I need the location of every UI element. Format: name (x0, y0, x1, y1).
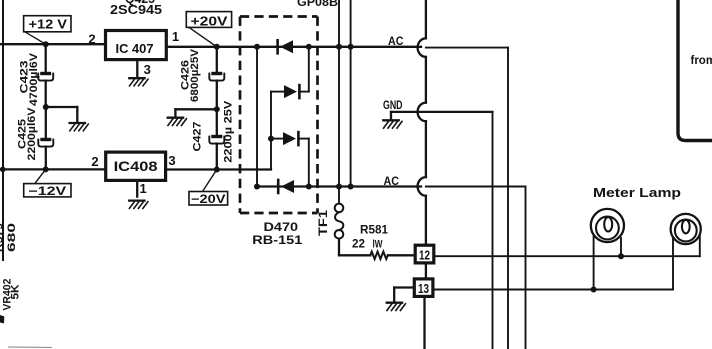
regulator IC408 (106, 152, 166, 180)
svg-text:4700µl6V: 4700µl6V (28, 52, 40, 106)
svg-text:Meter Lamp: Meter Lamp (593, 185, 681, 200)
diode D3 (third row, cathode right) (271, 132, 309, 145)
node mid C423/C425 (43, 104, 49, 110)
wire AC feed line right (350, 0, 352, 187)
wire mid node to ground C426 (175, 109, 216, 117)
node bridge bottom-right (306, 184, 312, 190)
svg-text:AC: AC (388, 34, 404, 48)
svg-text:D470: D470 (264, 220, 299, 234)
node AC feed right top (348, 44, 354, 50)
wire C427 branch upper (216, 109, 218, 135)
diode D1 (top row, cathode left) (278, 40, 293, 53)
connector pin GND (418, 103, 426, 122)
wire +12V rail (0, 43, 106, 45)
node bridge bottom-left (254, 184, 260, 190)
svg-text:680: 680 (6, 223, 18, 252)
capacitor C423 (38, 72, 53, 81)
diode bridge dashed box D470 (240, 17, 318, 214)
wire +20V rail (166, 46, 421, 48)
svg-text:1: 1 (140, 181, 147, 196)
label -12V (24, 169, 71, 198)
wire connector 12 to lamps (434, 255, 700, 257)
svg-text:R579: R579 (0, 223, 6, 252)
node AC feed left bottom (336, 184, 342, 190)
ground box13 (387, 303, 406, 311)
svg-text:3: 3 (144, 62, 151, 77)
ground IC407 (129, 78, 148, 86)
ink blotch bottom left (0, 315, 4, 323)
wire R581 to connector 12 (388, 254, 415, 256)
left page border (2, 0, 4, 260)
svg-text:R581: R581 (360, 222, 388, 236)
diode D4 (bottom row, cathode left) (278, 180, 294, 193)
resistor R581 (370, 252, 387, 259)
ground GND connector (383, 120, 402, 128)
capacitor C426 (209, 72, 224, 81)
wire GND right drop (492, 112, 494, 349)
op-amp/regulator IC407 (106, 31, 167, 60)
wire bridge left bus (256, 47, 258, 187)
wire connector 13 to lamps (433, 289, 673, 291)
lamp 1 right leg (620, 238, 622, 256)
lamp 2 right leg (699, 235, 701, 256)
connector pin AC top (418, 38, 426, 57)
svg-text:13: 13 (418, 282, 429, 296)
wire GND rail (391, 112, 493, 120)
label -20V (189, 170, 228, 207)
capacitor C425 (38, 138, 53, 147)
wire AC bottom rail (257, 185, 421, 187)
ground mid C423/C425 (70, 123, 89, 131)
node lamp1 right leg (618, 253, 624, 259)
svg-text:2200µl6V: 2200µl6V (26, 107, 38, 161)
wire -12V rail (0, 168, 106, 170)
wire C423 branch upper (45, 44, 47, 72)
svg-text:5K: 5K (10, 284, 22, 299)
lamp 2 left leg (672, 238, 674, 289)
connector box 13 (414, 279, 433, 297)
connector pin AC bottom (418, 177, 426, 196)
fuse TF1 (335, 204, 344, 256)
wire C426 to mid node (216, 81, 218, 110)
svg-text:+20V: +20V (191, 14, 229, 28)
node -12V junction (43, 166, 49, 172)
box from (top right) (678, 0, 712, 141)
connector line vertical (425, 0, 426, 349)
wire AC bottom to right drop (426, 187, 526, 349)
svg-text:−12V: −12V (28, 184, 66, 198)
svg-text:TF1: TF1 (316, 210, 330, 236)
svg-text:2: 2 (88, 32, 95, 47)
wire C423 to mid node (45, 81, 47, 107)
node bridge top-right (306, 44, 312, 50)
wire C425 to -12V rail (45, 147, 47, 170)
svg-text:1: 1 (172, 29, 179, 44)
svg-text:lW: lW (373, 239, 383, 251)
svg-text:GP08B: GP08B (297, 0, 338, 9)
svg-text:RB-151: RB-151 (252, 233, 302, 247)
faint page edge line bottom left (8, 346, 52, 349)
wire TF1 to R581 (339, 254, 370, 256)
svg-text:2200µ 25V: 2200µ 25V (223, 100, 235, 163)
lamp 2 (671, 214, 701, 244)
node bridge top-left (254, 44, 260, 50)
capacitor C427 (209, 135, 224, 144)
lamp 1 (591, 209, 624, 242)
wire C426 branch upper (216, 47, 218, 72)
ground C426 (168, 118, 187, 126)
svg-text:IC 407: IC 407 (116, 41, 154, 56)
svg-text:2SC945: 2SC945 (110, 2, 162, 17)
svg-text:from: from (691, 55, 712, 67)
label +20V (186, 12, 231, 47)
pin 1 stub IC408 (137, 180, 147, 196)
diode D2 (second row, cathode right) (271, 85, 299, 98)
node bridge mid-left (268, 136, 274, 142)
wire bridge mid-left bus (270, 92, 272, 170)
node +12V junction (43, 41, 49, 47)
wire bridge right bus lower (308, 139, 310, 187)
node lamp1 left leg (591, 287, 597, 293)
svg-text:3: 3 (168, 153, 175, 168)
svg-text:C427: C427 (192, 122, 204, 152)
node AC feed left top (336, 44, 342, 50)
node +20V junction (214, 44, 220, 50)
label +12V (24, 16, 71, 45)
wire C427 to -20V rail (216, 144, 218, 170)
svg-text:2: 2 (91, 154, 98, 169)
wire bridge right bus upper (299, 47, 309, 92)
svg-text:22: 22 (352, 237, 365, 251)
pin 3 stub IC407 (137, 60, 151, 78)
svg-text:+12 V: +12 V (29, 17, 68, 31)
svg-text:IC408: IC408 (114, 159, 159, 174)
connector box 12 (415, 245, 434, 263)
svg-text:−20V: −20V (191, 192, 226, 206)
wire box13 to ground (394, 288, 414, 303)
wire -20V rail (166, 168, 271, 170)
wire mid node to ground (46, 107, 78, 123)
wire C425 branch upper (45, 107, 47, 138)
svg-text:6800µ25V: 6800µ25V (189, 48, 201, 102)
wire AC top to right drop (426, 48, 508, 349)
node -12V left edge (0, 167, 6, 173)
wire AC feed line left (338, 0, 340, 204)
node -20V junction (214, 167, 220, 173)
svg-text:AC: AC (384, 174, 400, 188)
svg-text:12: 12 (419, 249, 430, 263)
node AC feed right bottom (348, 184, 354, 190)
svg-text:GND: GND (383, 98, 403, 112)
node mid C426/C427 (214, 106, 220, 112)
lamp 1 left leg (593, 237, 595, 290)
ground IC408 (129, 201, 148, 209)
